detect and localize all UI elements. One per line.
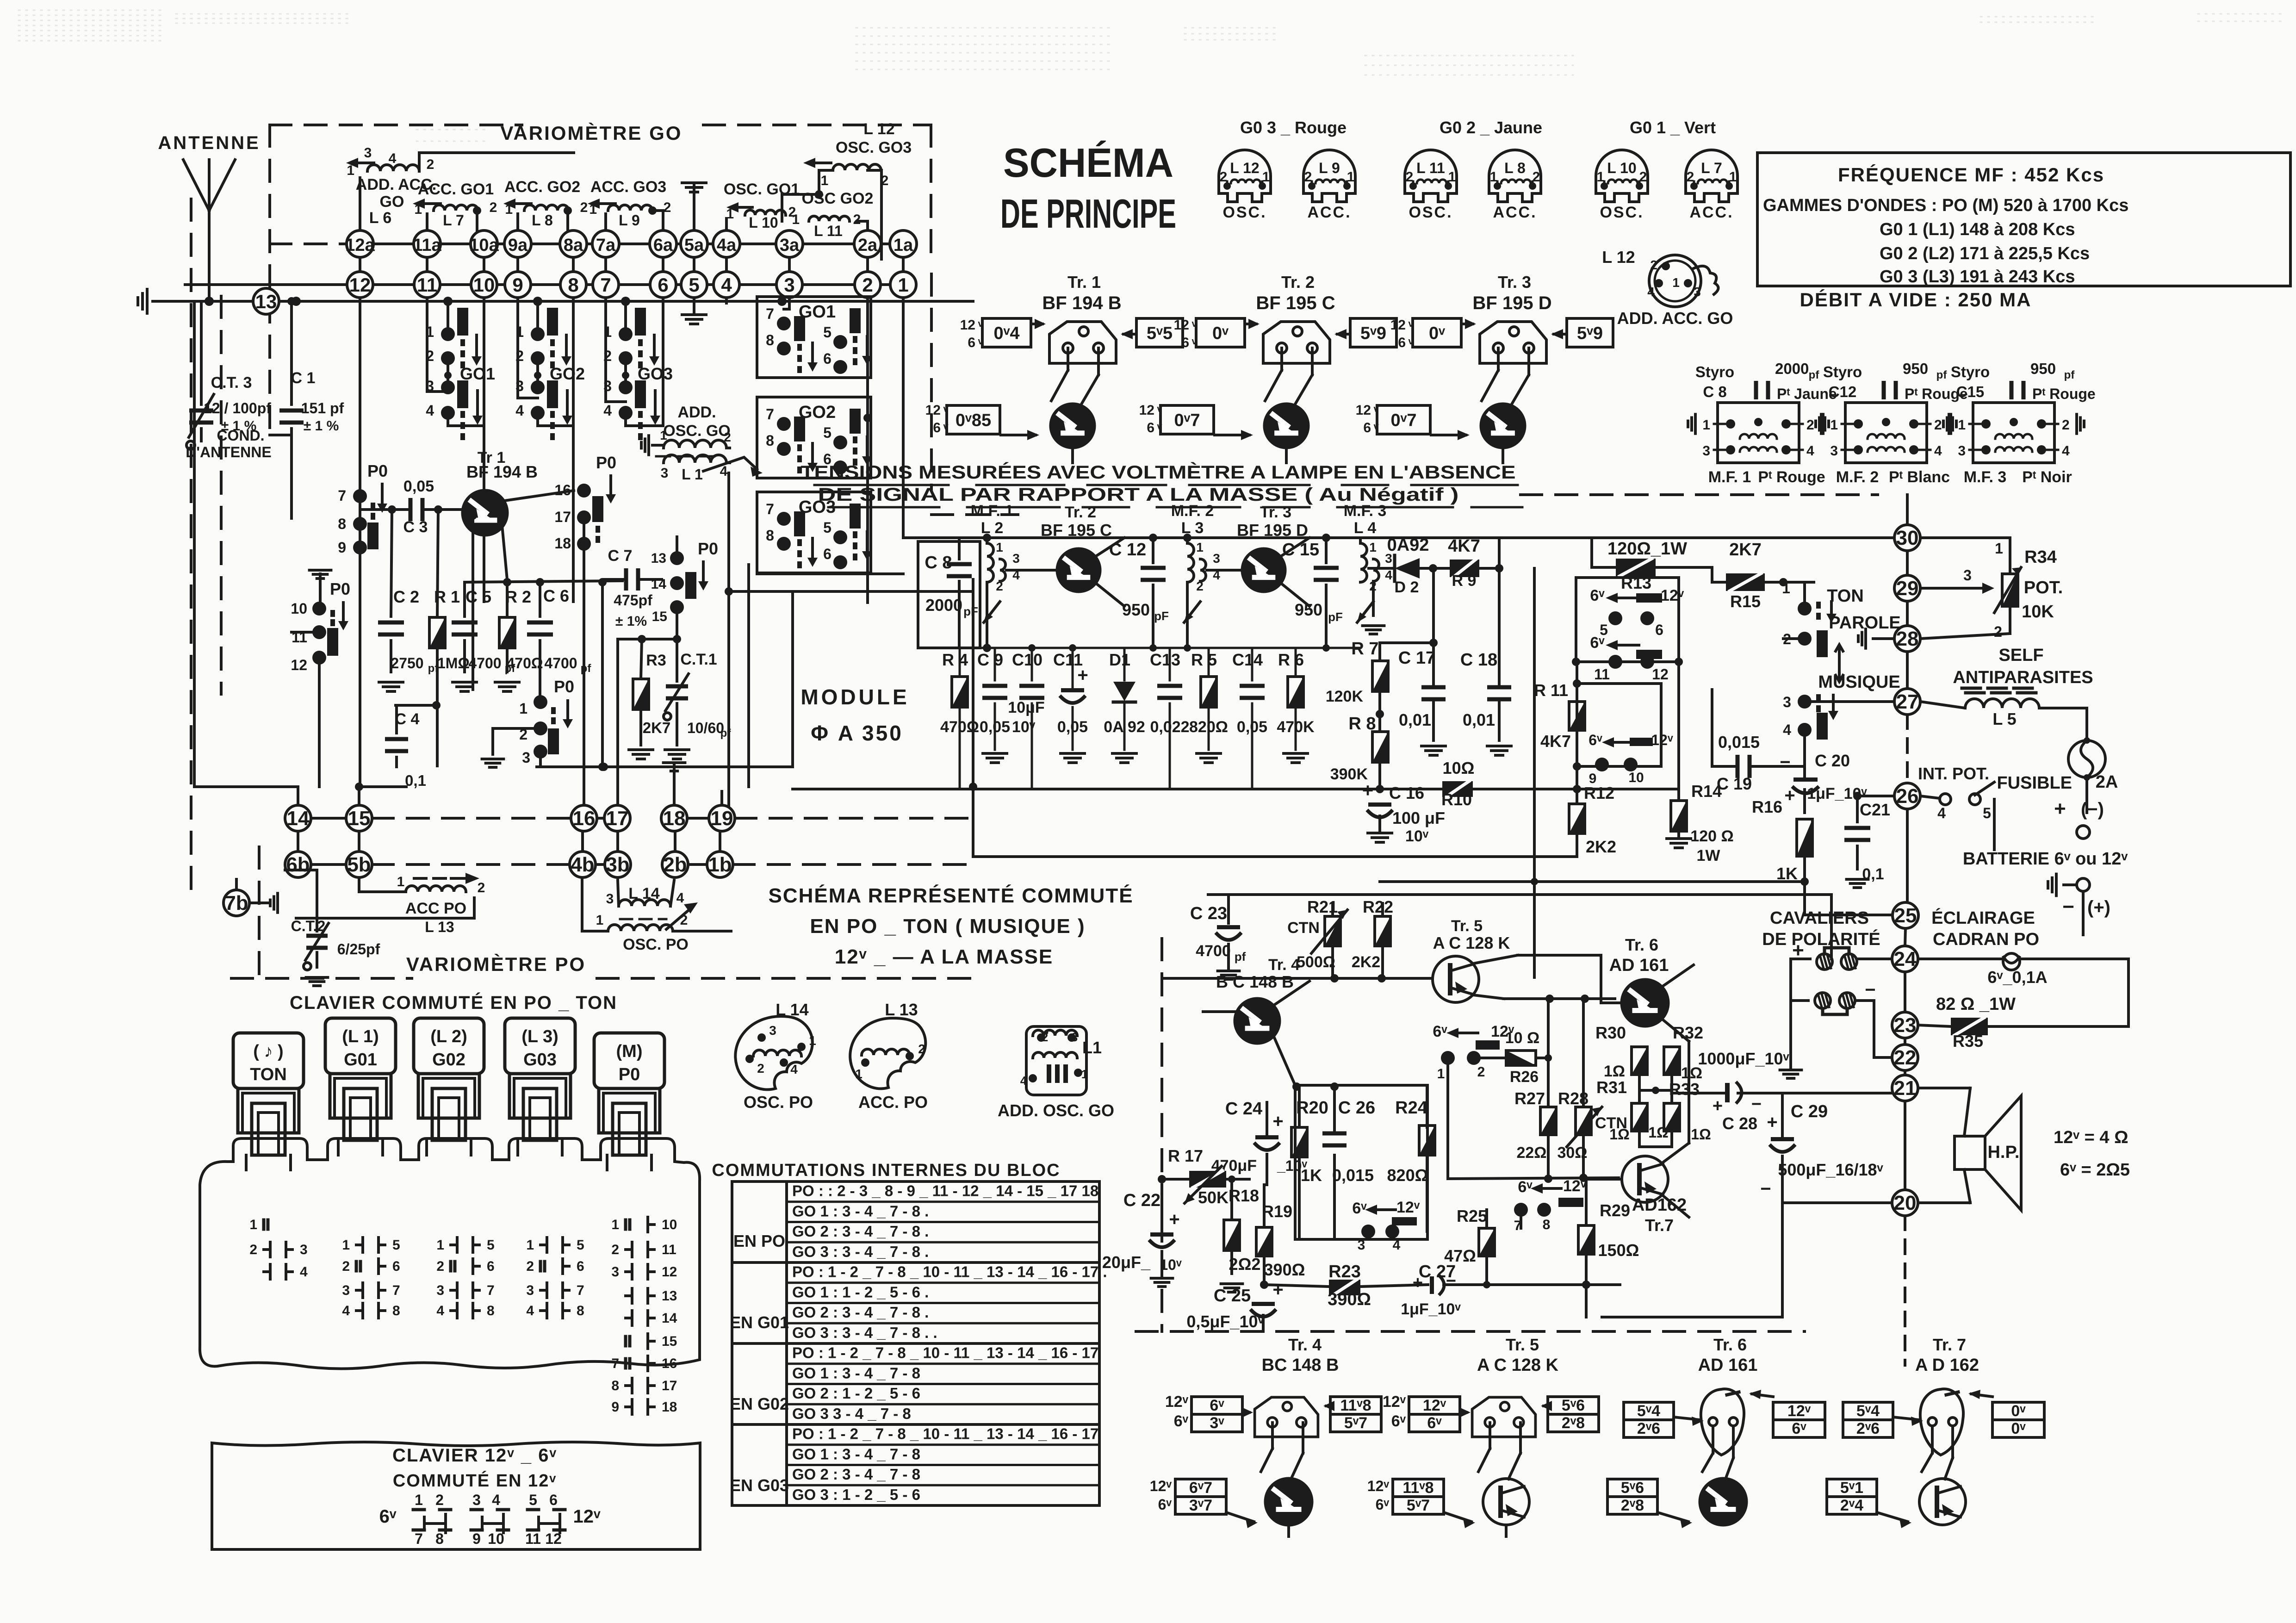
wire y2545: [1448, 1178, 1619, 1179]
svg-text:CAVALIERS: CAVALIERS: [1770, 908, 1869, 928]
svg-text:Styro: Styro: [1951, 363, 1990, 380]
svg-text:2ᵛ8: 2ᵛ8: [1562, 1414, 1585, 1432]
wire 21 to speaker: [1918, 1087, 1970, 1089]
svg-text:3: 3: [1958, 443, 1966, 459]
transistor Tr7 AD162: [1622, 1156, 1668, 1202]
svg-text:4: 4: [1806, 443, 1814, 459]
svg-text:ACC. GO2: ACC. GO2: [504, 178, 580, 196]
svg-text:2: 2: [342, 1259, 350, 1274]
svg-text:ANTENNE: ANTENNE: [158, 133, 260, 153]
svg-text:ADD. OSC. GO: ADD. OSC. GO: [998, 1101, 1114, 1120]
voltage box 5ᵛ5: [1136, 318, 1183, 347]
svg-text:11ᵛ8: 11ᵛ8: [1402, 1479, 1433, 1497]
svg-text:G03: G03: [523, 1050, 557, 1070]
svg-text:2: 2: [603, 348, 612, 364]
loudspeaker HP: [1955, 1136, 1985, 1169]
svg-text:28: 28: [1896, 628, 1919, 650]
svg-text:5: 5: [577, 1237, 584, 1253]
svg-text:C 26: C 26: [1338, 1098, 1375, 1118]
svg-text:M.F. 2: M.F. 2: [1836, 468, 1879, 486]
svg-text:0,015: 0,015: [1718, 733, 1760, 752]
svg-text:2: 2: [436, 1259, 444, 1274]
node 14: [285, 805, 311, 831]
svg-text:C 20: C 20: [1815, 751, 1850, 770]
svg-text:1: 1: [1702, 417, 1710, 433]
svg-text:BF 194 B: BF 194 B: [1042, 293, 1121, 313]
voltage boxes 12ᵛ/6ᵛ: [1409, 1397, 1460, 1414]
svg-text:21: 21: [1894, 1077, 1917, 1100]
coil can L9 ACC: [1303, 150, 1355, 202]
svg-text:R12: R12: [1584, 784, 1614, 802]
svg-text:100 μF: 100 μF: [1392, 808, 1445, 827]
svg-text:12: 12: [960, 317, 975, 333]
svg-text:950: 950: [1903, 360, 1928, 377]
svg-text:13: 13: [651, 551, 666, 566]
svg-text:5: 5: [529, 1492, 537, 1508]
svg-text:SCHÉMA: SCHÉMA: [1003, 140, 1173, 186]
svg-text:1: 1: [1196, 540, 1204, 554]
svg-text:5: 5: [823, 324, 832, 341]
svg-text:(M): (M): [616, 1042, 643, 1061]
wires test block: [1497, 348, 1500, 370]
svg-text:0,05: 0,05: [1057, 718, 1088, 736]
svg-text:12ᵛ _ — A LA MASSE: 12ᵛ _ — A LA MASSE: [835, 945, 1054, 968]
svg-text:12: 12: [1652, 666, 1669, 683]
svg-text:C 3: C 3: [403, 518, 428, 536]
svg-text:150Ω: 150Ω: [1598, 1241, 1639, 1260]
info box FREQUENCE: [1757, 153, 2290, 286]
svg-text:+: +: [1784, 785, 1795, 806]
svg-text:PO : 1 - 2 _ 7 - 8 _ 10 - 11 _: PO : 1 - 2 _ 7 - 8 _ 10 - 11 _ 13 - 14 _…: [792, 1425, 1098, 1443]
module top rail: [903, 536, 1360, 539]
svg-text:P0: P0: [619, 1065, 640, 1084]
svg-text:1μF_10ᵛ: 1μF_10ᵛ: [1401, 1300, 1461, 1318]
svg-text:D 2: D 2: [1395, 578, 1419, 596]
svg-text:10: 10: [1628, 770, 1644, 785]
svg-text:12: 12: [1174, 317, 1189, 333]
svg-text:10Ω: 10Ω: [1443, 759, 1475, 777]
svg-text:9: 9: [512, 274, 523, 296]
dashed boundary of test section: [930, 274, 933, 491]
svg-text:GO 1 : 3 - 4 _ 7 - 8: GO 1 : 3 - 4 _ 7 - 8: [792, 1364, 920, 1381]
node 16: [571, 805, 597, 831]
svg-text:pF: pF: [1154, 609, 1169, 623]
svg-text:Tr. 5: Tr. 5: [1451, 917, 1483, 935]
svg-text:2K7: 2K7: [1729, 540, 1762, 560]
node 1b: [707, 852, 733, 877]
svg-text:Styro: Styro: [1695, 363, 1734, 380]
svg-text:1: 1: [526, 1237, 534, 1253]
svg-text:L 9: L 9: [1319, 160, 1340, 176]
dashed section boundary: [1160, 939, 1163, 1331]
svg-text:Pᵗ Jaune: Pᵗ Jaune: [1777, 386, 1837, 402]
svg-text:C 25: C 25: [1214, 1286, 1251, 1306]
resistor R14: [1671, 801, 1687, 831]
svg-text:C 7: C 7: [608, 547, 633, 565]
svg-text:A C 128 K: A C 128 K: [1433, 933, 1510, 952]
svg-text:82 Ω _1W: 82 Ω _1W: [1936, 995, 2016, 1014]
key P0: [594, 1033, 664, 1088]
svg-text:GO 2 : 3 - 4 _ 7 - 8: GO 2 : 3 - 4 _ 7 - 8: [792, 1466, 920, 1483]
svg-text:GO 2 : 3 - 4 _ 7 - 8 .: GO 2 : 3 - 4 _ 7 - 8 .: [792, 1304, 929, 1321]
svg-text:3: 3: [769, 1023, 776, 1038]
svg-text:ACC. PO: ACC. PO: [858, 1093, 928, 1112]
svg-text:3: 3: [364, 145, 372, 161]
svg-text:7: 7: [766, 501, 774, 517]
coil can L10 OSC: [1596, 150, 1648, 202]
svg-text:6ᵛ: 6ᵛ: [1210, 1397, 1224, 1414]
voltage boxes 0ᵛ/0ᵛ: [1992, 1402, 2044, 1420]
chassis outline: [200, 1138, 700, 1369]
svg-text:R 11: R 11: [1534, 681, 1568, 700]
svg-text:2Ω2: 2Ω2: [1229, 1255, 1261, 1274]
svg-text:7: 7: [577, 1283, 584, 1298]
node 20: [1892, 1190, 1918, 1216]
svg-text:D1: D1: [1109, 650, 1130, 669]
svg-text:3: 3: [1213, 551, 1220, 566]
svg-text:10 Ω: 10 Ω: [1505, 1029, 1540, 1047]
svg-text:4: 4: [603, 402, 612, 419]
node 2a: [854, 230, 881, 257]
svg-text:5: 5: [487, 1237, 495, 1253]
svg-text:MUSIQUE: MUSIQUE: [1818, 672, 1900, 692]
svg-text:+: +: [1169, 1209, 1179, 1230]
wire y1933 rail: [1208, 893, 1831, 896]
svg-text:pf: pf: [581, 662, 592, 675]
box around R11: [1577, 684, 1661, 766]
voltage boxes 5ᵛ1/2ᵛ4: [1827, 1479, 1877, 1497]
svg-text:7: 7: [766, 305, 774, 322]
svg-text:500Ω: 500Ω: [1297, 953, 1335, 971]
svg-text:4b: 4b: [571, 853, 594, 876]
key G02: [414, 1018, 484, 1074]
svg-text:−: −: [2062, 895, 2074, 918]
svg-text:5ᵛ4: 5ᵛ4: [1856, 1402, 1880, 1420]
svg-text:R20: R20: [1296, 1098, 1328, 1118]
svg-text:BF 194 B: BF 194 B: [466, 462, 538, 481]
svg-text:8a: 8a: [564, 236, 583, 255]
svg-text:6ᵛ: 6ᵛ: [1590, 587, 1605, 604]
svg-text:± 1 %: ± 1 %: [304, 418, 339, 434]
svg-text:12a: 12a: [345, 236, 375, 255]
svg-text:PO : : 2 - 3 _ 8 - 9 _ 11 - 12: PO : : 2 - 3 _ 8 - 9 _ 11 - 12 _ 14 - 15…: [792, 1182, 1098, 1200]
svg-text:ACC.: ACC.: [1307, 204, 1351, 221]
svg-text:C14: C14: [1232, 650, 1263, 669]
svg-text:7: 7: [392, 1283, 400, 1298]
resistor R12: [1569, 804, 1585, 833]
svg-text:1K: 1K: [1301, 1166, 1322, 1185]
svg-text:12ᵛ: 12ᵛ: [1661, 587, 1684, 604]
node 12a: [347, 230, 373, 257]
svg-text:390Ω: 390Ω: [1328, 1290, 1371, 1309]
svg-text:950: 950: [2030, 360, 2056, 377]
svg-text:CTN: CTN: [1287, 919, 1320, 937]
svg-text:G0 1 _ Vert: G0 1 _ Vert: [1630, 118, 1716, 137]
svg-text:2: 2: [918, 1042, 925, 1056]
svg-text:3: 3: [784, 274, 794, 296]
svg-text:4: 4: [515, 402, 524, 419]
node 18: [661, 805, 687, 831]
svg-text:3: 3: [661, 466, 669, 481]
svg-text:R10: R10: [1441, 790, 1472, 809]
svg-text:AD162: AD162: [1632, 1195, 1687, 1215]
svg-text:0ᵛ85: 0ᵛ85: [956, 411, 991, 430]
svg-text:820Ω: 820Ω: [1387, 1166, 1428, 1185]
svg-text:6: 6: [577, 1259, 584, 1274]
svg-text:2: 2: [853, 212, 861, 227]
svg-text:R26: R26: [1510, 1068, 1539, 1086]
svg-text:17: 17: [606, 807, 629, 830]
svg-text:2K2: 2K2: [1586, 837, 1616, 856]
svg-text:BF 195 C: BF 195 C: [1256, 293, 1335, 313]
box CLAVIER 12V 6V: [212, 1442, 700, 1549]
wire 27 left: [1807, 700, 1894, 703]
svg-text:3: 3: [515, 378, 524, 394]
svg-text:ACC. GO3: ACC. GO3: [590, 178, 666, 196]
svg-text:1: 1: [611, 1217, 619, 1232]
node 3: [776, 272, 802, 298]
svg-text:(L 2): (L 2): [430, 1027, 467, 1046]
coil can L7 ACC: [1686, 150, 1738, 202]
node 7a: [592, 230, 619, 257]
svg-text:8: 8: [338, 516, 346, 532]
svg-text:ACC. GO1: ACC. GO1: [418, 180, 494, 198]
svg-text:2A: 2A: [2096, 772, 2118, 792]
svg-text:2: 2: [1687, 169, 1694, 185]
svg-text:14: 14: [651, 577, 667, 592]
svg-text:D'ANTENNE: D'ANTENNE: [186, 444, 271, 460]
wires test block: [1067, 348, 1069, 370]
svg-text:6a: 6a: [653, 236, 673, 255]
svg-text:1: 1: [1448, 169, 1456, 185]
svg-text:6ᵛ: 6ᵛ: [379, 1506, 397, 1527]
svg-text:0,05: 0,05: [403, 478, 434, 495]
svg-text:3: 3: [611, 1264, 619, 1280]
svg-text:12: 12: [349, 274, 371, 296]
svg-text:BC 148 B: BC 148 B: [1262, 1356, 1339, 1375]
svg-text:L 12: L 12: [1602, 248, 1635, 267]
svg-text:ADD.: ADD.: [677, 404, 716, 421]
svg-text:4a: 4a: [717, 236, 737, 255]
svg-text:3: 3: [1071, 1030, 1078, 1044]
svg-text:2ᵛ6: 2ᵛ6: [1637, 1420, 1660, 1437]
wire 25 left to R16: [1803, 882, 1806, 915]
svg-text:6b: 6b: [286, 853, 310, 876]
svg-text:2: 2: [1639, 169, 1647, 185]
svg-text:8: 8: [487, 1303, 495, 1318]
svg-text:Pᵗ Rouge: Pᵗ Rouge: [1758, 468, 1825, 486]
key TON: [233, 1033, 304, 1088]
svg-text:0,015: 0,015: [1332, 1166, 1374, 1185]
wire 7b: [249, 902, 268, 904]
svg-text:OSC. PO: OSC. PO: [623, 936, 689, 953]
svg-text:0A 92: 0A 92: [1104, 718, 1145, 736]
ground at 28: [1864, 629, 1867, 648]
svg-text:3: 3: [1830, 443, 1838, 459]
voltage boxes 5ᵛ6/2ᵛ8: [1607, 1479, 1657, 1497]
svg-text:2a: 2a: [858, 236, 878, 255]
svg-text:2b: 2b: [663, 853, 687, 876]
svg-text:G02: G02: [432, 1050, 465, 1070]
node 2: [855, 272, 881, 298]
svg-text:CADRAN PO: CADRAN PO: [1933, 930, 2039, 949]
svg-text:6ᵛ: 6ᵛ: [1352, 1200, 1367, 1217]
svg-text:3b: 3b: [606, 853, 629, 876]
svg-text:15: 15: [348, 807, 371, 830]
svg-text:2000: 2000: [1775, 360, 1809, 377]
svg-text:SELF: SELF: [1998, 646, 2043, 665]
svg-text:ÉCLAIRAGE: ÉCLAIRAGE: [1931, 908, 2035, 928]
svg-text:COMMUTATIONS INTERNES DU: COMMUTATIONS INTERNES DU BLOC: [712, 1161, 1060, 1180]
svg-text:R15: R15: [1730, 592, 1761, 611]
svg-text:9a: 9a: [508, 236, 528, 255]
svg-text:C 2: C 2: [393, 587, 419, 606]
wire R9 node up to rail: [1498, 538, 1501, 568]
svg-text:R34: R34: [2024, 547, 2057, 567]
svg-text:2: 2: [1806, 417, 1814, 433]
svg-text:+: +: [1767, 1112, 1777, 1132]
svg-text:L 11: L 11: [1416, 160, 1445, 176]
node 13: [253, 288, 279, 314]
svg-text:2: 2: [478, 880, 485, 895]
module A box: [791, 591, 794, 767]
node 3b: [605, 852, 631, 877]
svg-text:pF: pF: [963, 604, 978, 618]
node 7b: [223, 890, 249, 916]
svg-text:+: +: [1362, 779, 1374, 801]
svg-text:2: 2: [490, 200, 497, 215]
pinout wires: [1271, 1423, 1274, 1449]
svg-text:3: 3: [606, 891, 614, 907]
svg-text:4: 4: [526, 1303, 534, 1318]
svg-text:6ᵛ: 6ᵛ: [1391, 1412, 1406, 1430]
svg-text:24: 24: [1894, 948, 1917, 970]
svg-text:Tr. 4: Tr. 4: [1288, 1335, 1322, 1354]
svg-text:5ᵛ7: 5ᵛ7: [1407, 1497, 1430, 1514]
svg-text:VARIOMÈTRE PO: VARIOMÈTRE PO: [406, 953, 586, 975]
node 10: [471, 272, 497, 298]
svg-text:4: 4: [389, 151, 397, 166]
svg-text:3: 3: [436, 1283, 444, 1298]
svg-text:1: 1: [1729, 169, 1737, 185]
svg-text:R31: R31: [1596, 1078, 1627, 1097]
svg-text:7: 7: [1514, 1218, 1522, 1233]
svg-text:TENSIONS MESURÉES AVEC V: TENSIONS MESURÉES AVEC VOLTMÈTRE A LAMPE…: [801, 462, 1516, 483]
svg-text:4: 4: [1783, 721, 1791, 738]
svg-text:pf: pf: [2064, 369, 2075, 381]
svg-text:1: 1: [397, 874, 405, 889]
wires output net: [1688, 1041, 1690, 1143]
svg-text:2: 2: [1650, 258, 1657, 272]
svg-text:3: 3: [526, 1283, 534, 1298]
svg-text:19: 19: [711, 807, 733, 830]
svg-text:−: −: [1760, 1179, 1771, 1199]
svg-text:4K7: 4K7: [1448, 536, 1480, 556]
svg-text:3: 3: [300, 1242, 308, 1257]
svg-text:11: 11: [417, 274, 437, 296]
svg-text:GAMMES D'ONDES : PO (M) 520: GAMMES D'ONDES : PO (M) 520 à 1700 Kcs: [1763, 196, 2128, 215]
svg-text:L 9: L 9: [619, 212, 640, 229]
node 24: [1892, 946, 1918, 972]
svg-text:2ᵛ6: 2ᵛ6: [1856, 1420, 1880, 1437]
node 22: [1892, 1045, 1918, 1070]
svg-text:GO 2 : 1 - 2 _ 5 - 6: GO 2 : 1 - 2 _ 5 - 6: [792, 1385, 920, 1402]
svg-text:5b: 5b: [347, 853, 371, 876]
svg-text:GO 3 : 3 - 4 _ 7 - 8 .: GO 3 : 3 - 4 _ 7 - 8 .: [792, 1243, 929, 1260]
module bus: [793, 788, 1442, 790]
svg-text:27: 27: [1896, 690, 1919, 713]
svg-text:10K: 10K: [2022, 602, 2054, 622]
svg-text:11: 11: [1594, 666, 1610, 683]
svg-text:2750: 2750: [391, 655, 423, 672]
svg-text:1: 1: [792, 212, 800, 227]
wire vertical x3316: [1533, 568, 1536, 977]
svg-text:20μF_: 20μF_: [1102, 1253, 1151, 1272]
svg-text:12ᵛ: 12ᵛ: [1563, 1177, 1587, 1195]
capacitor to ground at antenna: [153, 300, 180, 303]
svg-text:4700: 4700: [544, 655, 577, 672]
svg-text:C 5: C 5: [465, 587, 491, 606]
svg-text:pf: pf: [1235, 950, 1246, 964]
svg-text:( ♪ ): ( ♪ ): [253, 1042, 283, 1061]
svg-text:3: 3: [603, 378, 612, 394]
svg-text:7a: 7a: [596, 236, 616, 255]
svg-text:COND.: COND.: [217, 427, 264, 444]
box R20 C26 R24: [1295, 1085, 1427, 1239]
node 11: [414, 272, 440, 298]
svg-text:1b: 1b: [708, 853, 732, 876]
svg-text:4: 4: [300, 1264, 308, 1280]
svg-text:2000: 2000: [925, 596, 962, 615]
wires amp to output: [1614, 999, 1615, 1178]
svg-text:50K: 50K: [1198, 1188, 1229, 1207]
svg-text:+: +: [1272, 1280, 1283, 1300]
svg-text:6: 6: [823, 350, 832, 367]
svg-text:6: 6: [487, 1259, 495, 1274]
svg-text:2: 2: [1533, 169, 1540, 185]
inductor L1: [664, 455, 726, 463]
svg-text:0,022: 0,022: [1150, 718, 1189, 736]
pinout wires: [1712, 1426, 1714, 1453]
svg-text:6: 6: [823, 546, 832, 562]
svg-text:C 18: C 18: [1460, 650, 1497, 670]
svg-text:0,01: 0,01: [1399, 710, 1431, 729]
svg-text:26: 26: [1896, 785, 1919, 808]
svg-text:14: 14: [662, 1311, 677, 1326]
coil can L11 OSC: [1405, 150, 1457, 202]
svg-text:120Ω_1W: 120Ω_1W: [1607, 539, 1687, 559]
svg-text:C 19: C 19: [1717, 774, 1752, 793]
node 1a: [890, 230, 917, 257]
svg-text:3: 3: [522, 749, 530, 766]
voltage boxes 5ᵛ4/2ᵛ6: [1624, 1402, 1674, 1420]
svg-text:6: 6: [1147, 420, 1154, 435]
svg-text:2: 2: [611, 1242, 619, 1257]
wire rail to node 30: [1360, 536, 1894, 539]
transistor body BF 195 C: [1265, 404, 1308, 448]
svg-text:5ᵛ5: 5ᵛ5: [1147, 324, 1173, 343]
wires rows b: [297, 831, 299, 852]
svg-text:Styro: Styro: [1823, 363, 1862, 380]
svg-text:12 / 100pf: 12 / 100pf: [204, 400, 271, 417]
svg-text:−: −: [1446, 1271, 1456, 1291]
wires output bridge: [1638, 1075, 1641, 1103]
svg-text:12: 12: [1139, 403, 1154, 418]
transistor body BF 195 D: [1481, 404, 1525, 448]
svg-text:PO : 1 - 2 _ 7 - 8 _ 10 - 11 _: PO : 1 - 2 _ 7 - 8 _ 10 - 11 _ 13 - 14 _…: [792, 1344, 1098, 1362]
row b links: [311, 863, 346, 866]
svg-text:25: 25: [1894, 904, 1917, 927]
